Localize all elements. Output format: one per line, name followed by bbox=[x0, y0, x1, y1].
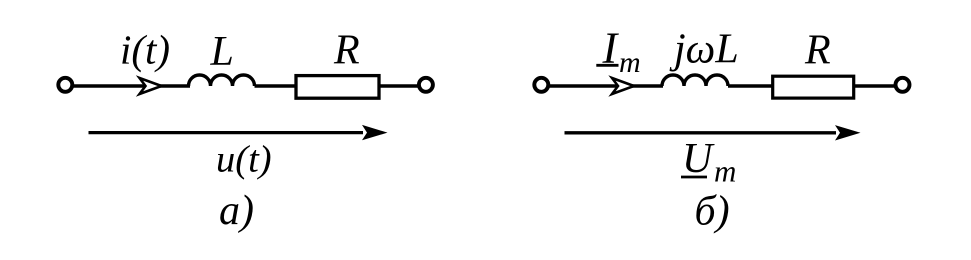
voltage arrow u(t) bbox=[89, 131, 364, 134]
resistor R bbox=[773, 76, 854, 98]
underline of I bbox=[596, 64, 618, 67]
svg-text:б): б) bbox=[695, 189, 730, 235]
inductor jwL bbox=[662, 75, 728, 86]
wire bbox=[379, 84, 418, 87]
svg-text:R: R bbox=[333, 28, 360, 74]
underline of U bbox=[681, 176, 707, 179]
voltage arrow Um bbox=[565, 131, 837, 134]
svg-text:U: U bbox=[682, 136, 715, 182]
wire bbox=[73, 84, 191, 87]
svg-text:R: R bbox=[804, 28, 831, 74]
wire bbox=[255, 84, 297, 87]
terminal left (circuit a) bbox=[58, 78, 72, 92]
terminal left (circuit b) bbox=[534, 78, 548, 92]
svg-text:а): а) bbox=[219, 188, 254, 234]
terminal right (circuit a) bbox=[419, 78, 433, 92]
svg-text:i(t): i(t) bbox=[120, 27, 170, 73]
current arrow i(t) bbox=[140, 78, 162, 94]
resistor R bbox=[296, 76, 379, 99]
wire bbox=[728, 84, 773, 87]
wire bbox=[549, 84, 664, 87]
svg-text:L: L bbox=[210, 29, 234, 75]
terminal right (circuit b) bbox=[896, 78, 910, 92]
wire bbox=[854, 84, 895, 87]
svg-text:jωL: jωL bbox=[669, 27, 739, 73]
svg-text:m: m bbox=[714, 154, 736, 189]
svg-text:m: m bbox=[619, 46, 641, 79]
inductor L bbox=[189, 75, 255, 86]
current arrow Im bbox=[612, 78, 634, 94]
svg-text:u(t): u(t) bbox=[216, 139, 272, 181]
